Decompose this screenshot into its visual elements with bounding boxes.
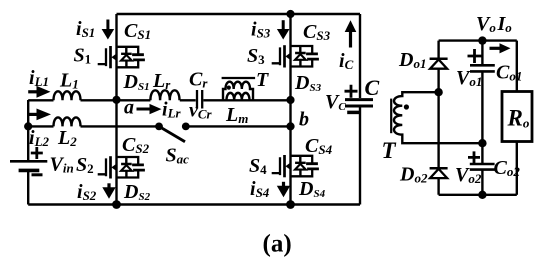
wire node b branch xyxy=(186,125,291,127)
battery plus sign xyxy=(31,147,43,159)
svg-text:CS3: CS3 xyxy=(303,21,331,43)
svg-text:Ro: Ro xyxy=(507,106,530,131)
svg-text:iS2: iS2 xyxy=(77,181,97,203)
arrow iS3 xyxy=(282,20,285,30)
svg-text:CS4: CS4 xyxy=(305,135,333,157)
node dot S4 leg bottom xyxy=(286,200,295,209)
wire left rail lower xyxy=(27,171,29,205)
svg-text:VC: VC xyxy=(325,91,346,113)
inductor L1 xyxy=(54,91,81,100)
mosfet S2 module xyxy=(98,156,145,178)
transformer secondary polarity dot xyxy=(404,104,409,109)
wire output right rail upper xyxy=(516,41,518,92)
arrow iL2 xyxy=(28,113,38,116)
inductor L2 xyxy=(54,117,81,126)
svg-text:iS3: iS3 xyxy=(251,19,271,41)
transformer T primary winding xyxy=(223,82,253,101)
transformer T core bar xyxy=(222,77,256,79)
svg-text:L2: L2 xyxy=(57,127,77,149)
resistor Ro box xyxy=(502,92,532,142)
capacitor Co1 plates xyxy=(470,65,495,71)
svg-text:iLr: iLr xyxy=(162,99,182,121)
svg-text:Cr: Cr xyxy=(189,69,208,91)
svg-text:Io: Io xyxy=(497,13,513,35)
wire bottom rail xyxy=(28,203,360,205)
capacitor Cr xyxy=(197,90,202,109)
svg-text:vCr: vCr xyxy=(189,100,213,122)
svg-text:iL2: iL2 xyxy=(29,127,50,149)
wire right rail upper xyxy=(359,14,361,98)
arrow iS1 xyxy=(106,20,109,31)
inductor Lm (magnetizing) xyxy=(227,93,250,100)
diode Do2 xyxy=(430,167,448,170)
arrow iS2 xyxy=(107,183,110,189)
inductor Lr xyxy=(150,90,179,100)
svg-text:Vo: Vo xyxy=(476,13,496,35)
battery minus sign xyxy=(32,173,43,176)
svg-text:CS2: CS2 xyxy=(122,134,150,156)
svg-text:a: a xyxy=(124,97,134,119)
wire output right rail lower xyxy=(516,142,518,195)
svg-text:DS3: DS3 xyxy=(294,72,322,94)
mosfet S4 module xyxy=(272,155,319,177)
svg-text:L1: L1 xyxy=(59,70,79,92)
wire resonant tank xyxy=(117,99,291,101)
diode Do1 branch wire xyxy=(437,41,439,195)
svg-text:DS2: DS2 xyxy=(123,181,151,203)
diode Do1 xyxy=(430,58,448,61)
node b dot xyxy=(286,122,294,130)
capacitor C plus sign xyxy=(345,85,358,98)
wire L1 branch xyxy=(28,99,116,101)
capacitor Co2 plus sign xyxy=(468,151,480,163)
svg-text:T: T xyxy=(382,138,397,163)
switch Sac left terminal dot xyxy=(155,123,163,131)
svg-text:C: C xyxy=(365,75,380,100)
battery Vin plates xyxy=(10,160,47,163)
svg-text:Lm: Lm xyxy=(225,104,248,126)
svg-text:DS1: DS1 xyxy=(123,71,150,93)
svg-text:Vo2: Vo2 xyxy=(455,164,482,186)
svg-text:Lr: Lr xyxy=(152,70,171,92)
capacitor Co2 plates xyxy=(470,164,495,170)
node dot output bottom rail xyxy=(478,191,486,199)
switch Sac right terminal dot xyxy=(182,123,190,131)
svg-text:S3: S3 xyxy=(247,45,265,67)
wire output bottom rail xyxy=(439,194,517,196)
node dot output top rail xyxy=(478,36,486,44)
svg-text:Vin: Vin xyxy=(50,154,74,176)
svg-text:Do1: Do1 xyxy=(398,49,426,71)
capacitor Co1 plus sign xyxy=(468,49,482,63)
wire top rail xyxy=(117,13,361,15)
wire right rail lower xyxy=(359,107,361,205)
svg-text:S4: S4 xyxy=(249,155,267,177)
mosfet S3 module xyxy=(272,45,319,67)
arrow Io xyxy=(490,47,502,50)
transformer T secondary core bar xyxy=(390,99,392,134)
wire L2 branch xyxy=(28,125,159,127)
wire S3-S4 leg xyxy=(289,14,291,205)
svg-text:Co1: Co1 xyxy=(496,62,522,84)
svg-text:iS1: iS1 xyxy=(76,18,95,40)
switch Sac blade xyxy=(159,126,185,141)
node dot Co1/Co2 midpoint xyxy=(478,139,486,147)
svg-text:Do2: Do2 xyxy=(399,164,428,186)
arrow iC xyxy=(349,31,352,48)
transformer primary polarity dot xyxy=(227,86,231,90)
svg-text:b: b xyxy=(299,109,309,131)
wire output top rail xyxy=(439,39,517,41)
transformer T secondary winding xyxy=(394,92,482,143)
mosfet S1 module xyxy=(98,46,145,68)
wire S1-S2 leg xyxy=(115,14,117,205)
wire left rail upper xyxy=(27,100,29,160)
svg-text:CS1: CS1 xyxy=(124,20,151,42)
capacitor C plates xyxy=(345,100,373,106)
svg-text:Sac: Sac xyxy=(166,145,190,167)
svg-text:iL1: iL1 xyxy=(29,67,49,89)
node a dot xyxy=(112,96,120,104)
svg-text:S2: S2 xyxy=(76,154,94,176)
arrow iS4 xyxy=(282,182,285,188)
node dot S2 leg bottom xyxy=(112,200,121,209)
wire output capacitor branch xyxy=(481,41,483,195)
node dot left rail / L2 xyxy=(24,122,32,130)
capacitor C minus sign xyxy=(347,111,359,115)
node dot Do1/secondary xyxy=(434,88,442,96)
svg-text:iS4: iS4 xyxy=(250,178,270,200)
node dot top rail / S3 leg xyxy=(286,10,294,18)
arrow iLr at node a xyxy=(137,108,151,111)
arrow iL1 xyxy=(28,90,38,93)
svg-text:T: T xyxy=(256,69,269,91)
svg-text:iC: iC xyxy=(339,50,354,72)
svg-text:(a): (a) xyxy=(263,231,292,258)
svg-text:S1: S1 xyxy=(74,45,92,67)
svg-text:DS4: DS4 xyxy=(298,178,326,200)
node dot tank / S3S4 leg xyxy=(286,96,294,104)
